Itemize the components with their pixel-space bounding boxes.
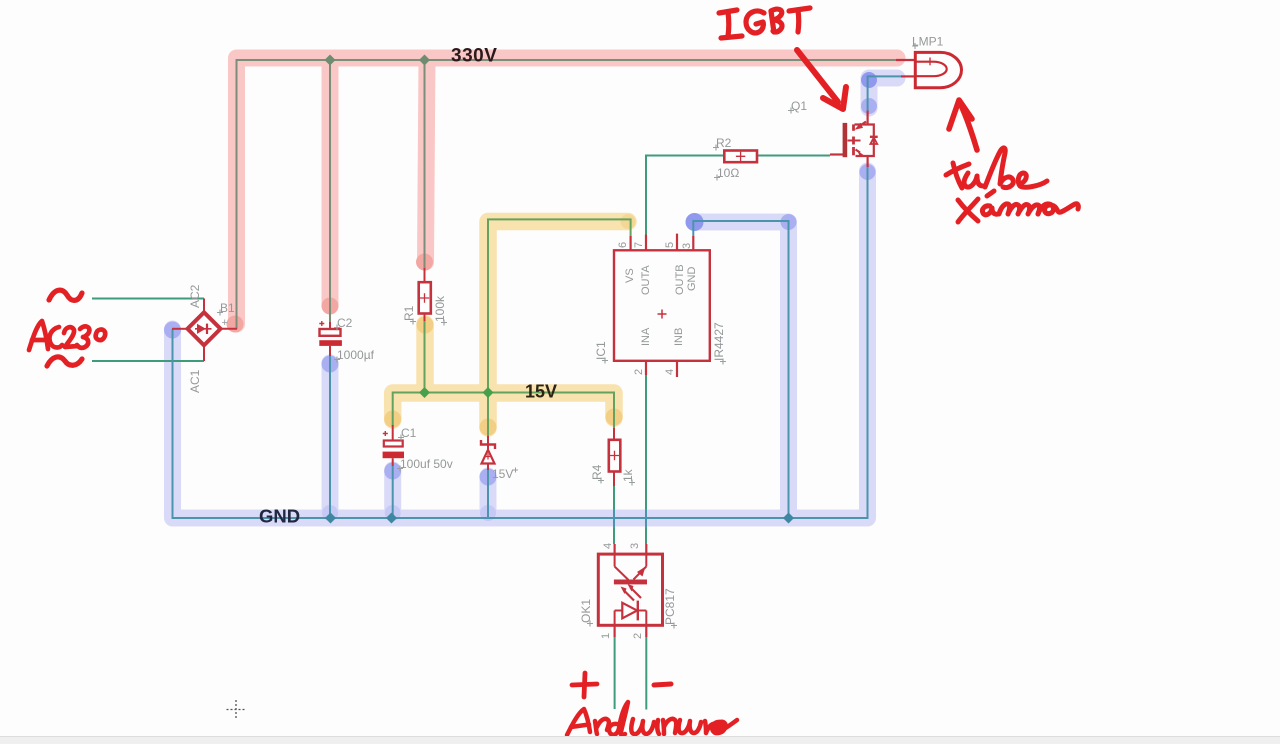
junction 15V at zener branch bbox=[483, 387, 494, 398]
wire C1 bottom to GND bbox=[392, 466, 394, 518]
svg-text:3: 3 bbox=[681, 243, 693, 249]
net label 330V bbox=[451, 46, 497, 67]
label IR4427 bbox=[712, 322, 726, 365]
capacitor C1 (100uf 50v) bbox=[383, 425, 404, 466]
capacitor C2 (1000µf) bbox=[319, 321, 342, 356]
label C2 bbox=[334, 316, 353, 331]
wire IC1 pin3 GND to rail (under blue) bbox=[693, 221, 788, 518]
OK1 pin number 2 bbox=[632, 633, 644, 639]
wire R4 bottom to OK1 pin4 bbox=[613, 486, 615, 544]
svg-text:R1: R1 bbox=[402, 305, 416, 321]
svg-text:PC817: PC817 bbox=[663, 588, 677, 625]
net label GND bbox=[259, 506, 300, 527]
wire AC1 input bbox=[92, 360, 204, 362]
handwritten plus (Arduino) bbox=[572, 673, 597, 697]
transistor Q1 IGBT bbox=[830, 111, 878, 167]
junction 15V at R1 bbox=[419, 387, 430, 398]
svg-text:10Ω: 10Ω bbox=[717, 166, 739, 180]
label IC1 bbox=[594, 341, 608, 364]
wire R1 top from 330V (under pink) bbox=[424, 60, 426, 268]
OK1 pin number 3 bbox=[629, 543, 641, 549]
highlight pink 330V net: rail + three verticals bbox=[237, 58, 898, 324]
svg-text:15V: 15V bbox=[525, 382, 557, 402]
wire zener anode to GND bbox=[487, 470, 489, 518]
label R2 bbox=[713, 136, 732, 151]
lamp LMP1 bbox=[896, 52, 961, 87]
wire IC1 OUTA pin7 to R2 to Q1 gate bbox=[646, 156, 724, 237]
label C1 bbox=[398, 426, 417, 441]
junction GND at C2 bbox=[325, 513, 336, 524]
zener diode D1 (15V) bbox=[481, 436, 495, 470]
svg-text:15V: 15V bbox=[492, 467, 513, 481]
OK1 pin number 1 bbox=[600, 633, 612, 639]
svg-text:OUTA: OUTA bbox=[640, 265, 652, 295]
optocoupler OK1 PC817 bbox=[598, 544, 662, 637]
junction GND at IC1 pin3 branch bbox=[783, 513, 794, 524]
junction GND at C1 bbox=[386, 513, 397, 524]
label 1000µf bbox=[334, 348, 375, 363]
svg-text:1: 1 bbox=[600, 633, 612, 639]
IC1 pin name VS bbox=[624, 268, 636, 283]
cursor crosshair bbox=[227, 700, 246, 719]
highlight yellow end blobs bbox=[384, 214, 635, 436]
svg-text:INA: INA bbox=[640, 327, 652, 346]
svg-text:AC2: AC2 bbox=[188, 284, 202, 308]
resistor R1 (100k) bbox=[419, 268, 431, 321]
svg-text:7: 7 bbox=[633, 242, 645, 248]
highlight pink end blobs bbox=[227, 254, 434, 333]
highlight yellow 15V net bbox=[393, 222, 628, 429]
label AC2 (bridge pin) bbox=[188, 284, 202, 308]
wire OK1 pin2 to Arduino - bbox=[645, 637, 647, 710]
label PC817 bbox=[663, 588, 677, 629]
handwritten tilde bottom (AC) bbox=[47, 357, 82, 366]
IC1 pin name INB bbox=[673, 328, 685, 346]
wire 330V rail (under pink) bbox=[237, 60, 897, 329]
IC1 IR4427 driver bbox=[614, 234, 710, 377]
svg-text:2: 2 bbox=[632, 633, 644, 639]
label OK1 bbox=[579, 599, 593, 627]
resistor R2 (10 ohm) bbox=[724, 151, 757, 163]
handwritten AC 230 bbox=[29, 321, 105, 350]
wire 15V to zener cathode (under yellow) bbox=[487, 393, 489, 437]
junction 330V at R1 bbox=[419, 55, 430, 66]
IC1 pin name OUTA bbox=[640, 265, 652, 295]
wire 15V to IC1 VS pin6 (under yellow) bbox=[488, 219, 631, 392]
label B1 bbox=[217, 301, 235, 329]
handwritten arrow to lamp (tube xenon) bbox=[949, 100, 977, 150]
svg-text:GND: GND bbox=[686, 267, 698, 292]
handwritten tilde top (AC) bbox=[49, 290, 82, 300]
svg-text:6: 6 bbox=[617, 242, 629, 248]
net label 15V bbox=[525, 382, 557, 402]
svg-text:4: 4 bbox=[664, 369, 676, 375]
IC1 pin number 4 bbox=[664, 369, 676, 375]
wire 15V rail (under yellow) bbox=[393, 393, 614, 429]
svg-text:2: 2 bbox=[633, 369, 645, 375]
IC1 pin number 6 bbox=[617, 242, 629, 248]
svg-text:+: + bbox=[222, 317, 228, 329]
svg-text:OUTB: OUTB bbox=[674, 264, 686, 295]
svg-text:R4: R4 bbox=[590, 464, 604, 480]
label 100k bbox=[433, 295, 447, 326]
label 15V (zener value) bbox=[492, 467, 518, 481]
label AC1 (bridge pin) bbox=[188, 369, 202, 393]
OK1 pin number 4 bbox=[602, 543, 614, 549]
handwritten IGBT bbox=[719, 8, 810, 38]
IC1 pin name GND bbox=[686, 267, 698, 292]
label 100uf 50v bbox=[397, 457, 453, 472]
svg-text:5: 5 bbox=[664, 242, 676, 248]
IC1 pin number 5 bbox=[664, 242, 676, 248]
svg-text:4: 4 bbox=[602, 543, 614, 549]
svg-text:330V: 330V bbox=[451, 46, 497, 67]
wire AC2 input bbox=[92, 298, 204, 300]
IC1 pin number 7 bbox=[633, 242, 645, 248]
bridge rectifier B1 bbox=[172, 299, 237, 362]
handwritten arrow to Q1 (IGBT) bbox=[797, 50, 846, 109]
IC1 pin number 3 bbox=[681, 243, 693, 249]
svg-text:OK1: OK1 bbox=[579, 599, 593, 623]
svg-text:IC1: IC1 bbox=[594, 341, 608, 360]
IC1 pin number 2 bbox=[633, 369, 645, 375]
svg-text:INB: INB bbox=[673, 328, 685, 346]
svg-text:AC1: AC1 bbox=[188, 369, 202, 393]
svg-text:100k: 100k bbox=[433, 295, 447, 322]
wire lamp to Q1 collector (under blue) bbox=[868, 76, 901, 111]
IC1 pin name INA bbox=[640, 327, 652, 346]
svg-text:1000µf: 1000µf bbox=[337, 348, 375, 362]
handwritten tube bbox=[946, 148, 1047, 188]
label R4 bbox=[590, 464, 604, 483]
highlight blue end blobs bbox=[164, 72, 877, 521]
wire IC1 INA pin2 to OK1 pin3 bbox=[645, 375, 647, 544]
svg-text:GND: GND bbox=[259, 506, 300, 527]
label LMP1 bbox=[912, 35, 944, 50]
label R1 bbox=[402, 305, 416, 324]
label Q1 bbox=[788, 99, 807, 114]
svg-text:100uf 50v: 100uf 50v bbox=[400, 457, 453, 471]
label 1k bbox=[621, 468, 635, 485]
bottom window edge bar bbox=[0, 737, 1280, 744]
handwritten Arduino bbox=[567, 702, 737, 735]
svg-text:1k: 1k bbox=[621, 468, 635, 482]
svg-text:IR4427: IR4427 bbox=[712, 322, 726, 361]
wire GND net (bridge minus to GND rail to Q1 emitter, under blue) bbox=[173, 166, 868, 518]
wire C2 top from 330V (under pink) bbox=[329, 60, 331, 322]
svg-text:3: 3 bbox=[629, 543, 641, 549]
wire OK1 pin1 to Arduino + bbox=[614, 637, 616, 709]
wire C2 bottom to GND bbox=[329, 356, 331, 518]
IC1 pin name OUTB bbox=[674, 264, 686, 295]
wire R2 right to Q1 gate bbox=[757, 155, 830, 157]
wire R1 bottom to 15V rail (under yellow) bbox=[424, 321, 426, 393]
label 10Ω bbox=[714, 166, 739, 181]
resistor R4 (1k) bbox=[609, 428, 621, 486]
handwritten minus (Arduino) bbox=[654, 684, 671, 685]
junction 330V at C2 bbox=[325, 55, 336, 66]
handwritten xénon bbox=[958, 191, 1078, 222]
highlight blue GND net: bridge minus, GND rail, Q1 emitter column bbox=[173, 78, 898, 518]
svg-text:VS: VS bbox=[624, 268, 636, 283]
